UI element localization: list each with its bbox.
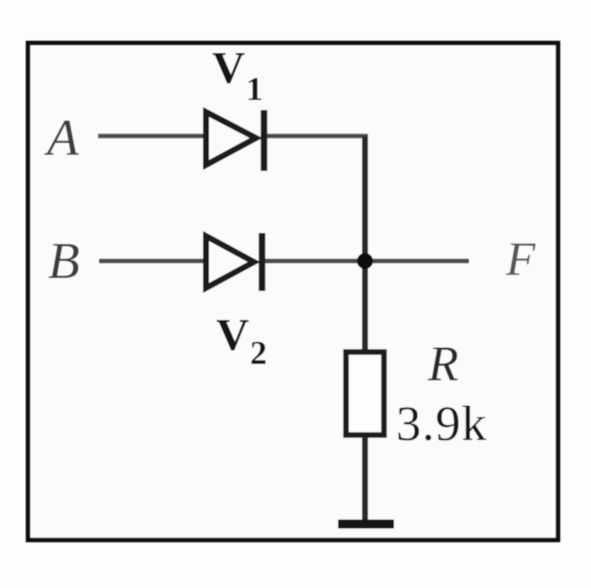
svg-text:B: B xyxy=(48,233,80,290)
svg-text:R: R xyxy=(427,335,459,391)
wire resistor to ground xyxy=(362,437,368,522)
ground xyxy=(338,520,394,529)
wire V1 to vertical bus xyxy=(267,134,368,139)
junction node dot xyxy=(357,253,373,269)
wire vertical bus from A row to resistor xyxy=(362,136,368,352)
svg-text:F: F xyxy=(505,233,536,286)
svg-text:3.9k: 3.9k xyxy=(396,395,488,451)
diode V2 xyxy=(206,233,262,291)
svg-text:1: 1 xyxy=(246,71,263,108)
diode V1 xyxy=(206,110,264,171)
wire B input xyxy=(99,259,206,264)
wire B output to F xyxy=(265,259,469,264)
svg-text:V: V xyxy=(216,309,249,360)
border frame xyxy=(28,43,558,540)
svg-text:2: 2 xyxy=(250,335,267,372)
svg-text:V: V xyxy=(212,42,245,93)
resistor R body xyxy=(346,352,384,435)
svg-text:A: A xyxy=(44,110,79,167)
wire A input xyxy=(98,134,206,139)
